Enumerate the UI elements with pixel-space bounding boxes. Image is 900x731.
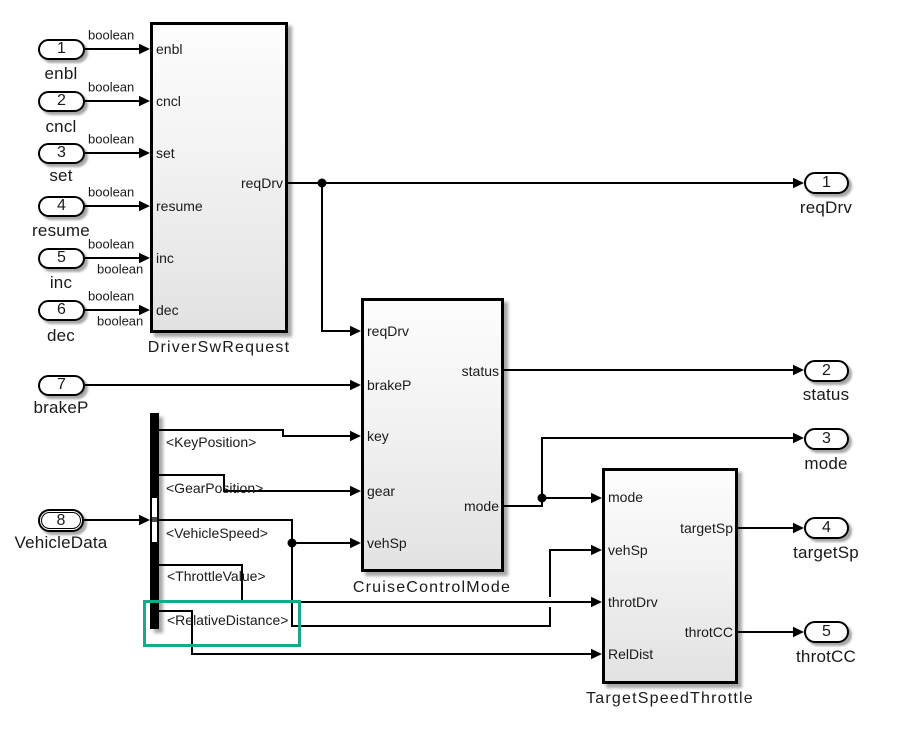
arrowhead enbl [139,44,150,54]
inport 7 name brakeP [33,398,88,418]
outport 4 [804,517,849,539]
arrowhead cncl [139,96,150,106]
wire vehSp net [159,520,550,626]
port label enbl [156,41,182,57]
bus signal label RelativeDistance [167,612,288,628]
outport 4 name targetSp [793,543,859,563]
wire throtCC net [738,631,794,633]
wire port4 to resume [85,205,140,207]
subsystem block CruiseControlMode [361,298,504,572]
signal label boolean 3 [88,132,134,147]
wire port3 to set [85,152,140,154]
inport 5 [38,248,85,269]
outport 2 name status [803,385,850,405]
arrowhead key [350,431,361,441]
port label vehSp CCM [367,535,407,551]
arrowhead inc [139,253,150,263]
arrowhead bus input [139,515,150,525]
arrowhead outport2 [793,365,804,375]
junction vehSp [288,539,297,548]
port label inc [156,250,174,266]
arrowhead set [139,148,150,158]
outport 5 name throtCC [796,647,856,667]
arrowhead outport4 [793,523,804,533]
arrowhead vehSp TST [591,545,602,555]
arrowhead outport3 [793,433,804,443]
port label cncl [156,93,181,109]
inport 7 [38,375,85,396]
highlight box around RelativeDistance [143,600,301,647]
junction reqDrv [318,179,327,188]
signal label boolean 5b [97,262,143,277]
inport 2 name cncl [45,117,76,137]
wire port2 to cncl [85,100,140,102]
wire key net [159,430,351,436]
inport 5 name inc [50,273,72,293]
port label throtCC out [685,624,733,640]
port label throtDrv [608,594,658,610]
signal label boolean 2 [88,80,134,95]
inport 8 (bus) [38,509,84,532]
outport 2 [804,360,849,382]
outport 1 [804,172,849,194]
port label reqDrv out [241,175,283,191]
arrowhead reqDrv into CCM [350,326,361,336]
outport 3 [804,428,849,450]
arrowhead throtDrv [591,597,602,607]
inport 6 [38,300,85,321]
subsystem block DriverSwRequest [150,22,288,333]
arrowhead resume [139,201,150,211]
arrowhead dec [139,305,150,315]
bus signal label VehicleSpeed [166,525,268,541]
port label mode out [464,498,499,514]
inport 6 name dec [47,326,75,346]
wire port8 to bus selector [84,519,140,521]
wire port1 to enbl [85,48,140,50]
signal label boolean 6a [88,289,134,304]
arrowhead vehSp CCM [350,538,361,548]
arrowhead RelDist [591,649,602,659]
inport 8 name VehicleData [15,533,108,553]
port label RelDist [608,646,653,662]
outport 5 [804,621,849,643]
inport 4 [38,196,85,217]
port label targetSp out [680,520,733,536]
wire port7 to brakeP [85,384,351,386]
port label reqDrv in [367,323,409,339]
bus signal label GearPosition [166,480,263,496]
signal label boolean 5a [88,237,134,252]
port label set [156,145,175,161]
junction mode [538,494,547,503]
arrowhead brakeP [350,380,361,390]
bus signal label KeyPosition [166,434,256,450]
inport 1 [38,39,85,60]
port label status out [462,363,499,379]
block name DriverSwRequest [148,339,290,357]
wire reqDrv net [288,182,794,184]
arrowhead outport1 [793,178,804,188]
wire port5 to inc [85,257,140,259]
inport 1 name enbl [45,64,78,84]
port label dec [156,302,179,318]
inport 3 name set [49,166,72,186]
wire gear net [159,475,351,491]
outport 3 name mode [804,454,847,474]
inport 2 [38,91,85,112]
arrowhead outport5 [793,627,804,637]
port label key [367,428,389,444]
block name CruiseControlMode [353,579,511,597]
signal label boolean 1 [88,28,134,43]
wire targetSp net [738,527,794,529]
subsystem block TargetSpeedThrottle [602,468,738,684]
block name TargetSpeedThrottle [586,690,754,708]
port label gear [367,483,395,499]
outport 1 name reqDrv [800,198,852,218]
wire status net [504,369,794,371]
bus selector [150,413,159,629]
wire mode net [504,438,794,506]
signal label boolean 6b [97,314,143,329]
port label brakeP in [367,377,411,393]
port label vehSp TST [608,542,648,558]
arrowhead mode TST [591,493,602,503]
inport 3 [38,143,85,164]
signal label boolean 4 [88,185,134,200]
bus signal label ThrottleValue [167,568,266,584]
wire throtDrv net [159,565,592,602]
inport 4 name resume [32,221,90,241]
port label mode in [608,489,643,505]
wire RelDist net [159,611,592,654]
wire port6 to dec [85,309,140,311]
port label resume [156,198,203,214]
arrowhead gear [350,486,361,496]
